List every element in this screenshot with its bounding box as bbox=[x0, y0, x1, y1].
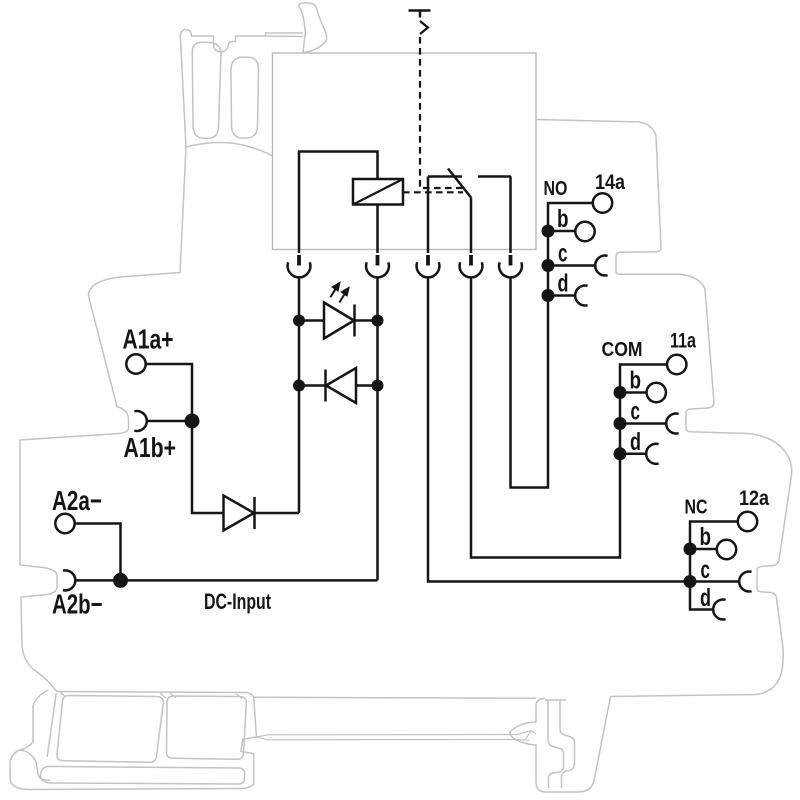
wire DC input return bbox=[121, 579, 378, 582]
label NO b bbox=[557, 205, 569, 233]
socket COM d bbox=[646, 444, 658, 464]
COM bus bbox=[471, 277, 667, 558]
junction COM b bbox=[614, 386, 627, 399]
manual actuator stem bbox=[419, 11, 422, 18]
svg-text:12a: 12a bbox=[739, 486, 770, 510]
plug pin 2 bbox=[376, 255, 380, 266]
wire COM b bbox=[620, 391, 647, 394]
plug pin 4 bbox=[469, 255, 473, 266]
socket cup 3 bbox=[417, 262, 440, 277]
label NC b bbox=[700, 523, 712, 551]
label COM c bbox=[631, 398, 641, 426]
junction A1 bbox=[185, 414, 200, 429]
LED V1 emission arrows bbox=[330, 283, 348, 302]
junction COM d bbox=[614, 447, 627, 460]
housing clamp slot right bbox=[231, 57, 259, 138]
socket cup 1 bbox=[288, 262, 311, 277]
junction NO d bbox=[542, 289, 555, 302]
svg-text:COM: COM bbox=[602, 339, 643, 361]
svg-text:b: b bbox=[700, 523, 712, 551]
housing foot bottom slot bbox=[40, 766, 244, 784]
LED V1 wires bbox=[299, 319, 378, 322]
svg-text:b: b bbox=[557, 205, 569, 233]
junction NO c bbox=[542, 259, 555, 272]
terminal circle A2a bbox=[55, 514, 74, 533]
wire NC pole from contact bbox=[428, 277, 690, 582]
wire right rail upper bbox=[376, 277, 379, 580]
housing relay compartment box bbox=[273, 53, 537, 250]
svg-text:14a: 14a bbox=[595, 170, 626, 194]
wire coil bottom to pin2 bbox=[376, 205, 379, 254]
label NO bbox=[544, 178, 568, 200]
manual actuator spring chevron bbox=[420, 21, 428, 34]
relay coil K1 bbox=[353, 179, 403, 205]
wire coil top to A1 feed bbox=[299, 152, 378, 254]
socket A1b bbox=[134, 411, 146, 431]
wire diode V3 to left rail bbox=[255, 512, 300, 515]
junction LED left bbox=[293, 315, 305, 327]
label 11a bbox=[670, 329, 697, 353]
label NO d bbox=[558, 270, 569, 298]
LED V1 triangle bbox=[324, 303, 354, 339]
label COM d bbox=[630, 428, 641, 456]
wire A2a to junction bbox=[75, 524, 121, 580]
socket cup 4 bbox=[460, 262, 483, 277]
terminal circle COM b bbox=[647, 383, 666, 402]
label A2a− bbox=[52, 485, 102, 516]
svg-text:b: b bbox=[630, 367, 642, 395]
socket A2b bbox=[63, 570, 75, 590]
manual actuator button bar bbox=[409, 9, 431, 12]
housing foot top edge bbox=[58, 692, 257, 789]
socket NC d bbox=[713, 600, 725, 620]
coil dashed link horizontal bbox=[403, 191, 463, 193]
wire COM d bbox=[620, 453, 646, 456]
junction NC b bbox=[684, 543, 697, 556]
housing rail clip outline bbox=[510, 697, 611, 793]
housing clamp bottom arc bbox=[186, 143, 273, 157]
wire NO c bbox=[548, 264, 595, 267]
junction NO b bbox=[542, 225, 555, 238]
terminal circle 14a bbox=[593, 193, 612, 212]
svg-text:d: d bbox=[700, 584, 711, 612]
housing left side outline bbox=[20, 147, 186, 692]
NO bus bbox=[511, 203, 594, 488]
junction A2 bbox=[113, 573, 128, 588]
housing body bottom edge middle bbox=[254, 696, 536, 699]
socket cup 5 bbox=[499, 262, 522, 277]
wire NO d bbox=[548, 294, 575, 297]
terminal circle NO b bbox=[575, 222, 594, 241]
label DC-Input bbox=[204, 589, 271, 614]
label A2b− bbox=[52, 589, 103, 620]
svg-text:c: c bbox=[701, 556, 711, 584]
LED V1 cathode bar bbox=[353, 305, 356, 337]
junction COM c bbox=[614, 417, 627, 430]
wire NO b bbox=[548, 230, 576, 233]
NC bus bbox=[690, 522, 738, 610]
junction NC c bbox=[684, 575, 697, 588]
din rail right lip wedge bbox=[514, 731, 536, 741]
diode V3 cathode bar bbox=[253, 497, 256, 529]
plug pin 5 bbox=[509, 255, 513, 266]
socket cup 2 bbox=[366, 262, 389, 277]
housing foot slot hatch ticks bbox=[60, 692, 242, 699]
label NC bbox=[685, 497, 708, 519]
relay contact blade bbox=[448, 169, 471, 198]
diode V2 wires bbox=[299, 384, 378, 387]
svg-text:NC: NC bbox=[685, 497, 708, 519]
diode V3 triangle bbox=[224, 496, 255, 531]
socket COM c bbox=[666, 414, 678, 434]
label COM bbox=[602, 339, 643, 361]
relay contact top bar bbox=[428, 175, 462, 178]
wire NC b bbox=[690, 548, 717, 551]
housing clamp slot left bbox=[192, 42, 221, 138]
wire blade to pin4 bbox=[470, 198, 473, 254]
label A1a+ bbox=[123, 324, 174, 355]
socket NC c bbox=[739, 572, 751, 592]
label NC c bbox=[701, 556, 711, 584]
svg-text:c: c bbox=[558, 240, 568, 268]
svg-text:A1b+: A1b+ bbox=[124, 432, 177, 463]
svg-text:A2a−: A2a− bbox=[52, 485, 102, 516]
svg-text:c: c bbox=[631, 398, 641, 426]
wire A1 bus down bbox=[192, 421, 224, 513]
label NC d bbox=[700, 584, 711, 612]
junction diode left bbox=[293, 380, 305, 392]
wire COM c bbox=[620, 422, 666, 425]
terminal circle A1a bbox=[126, 354, 145, 373]
wire A2b to junction bbox=[76, 579, 121, 582]
housing foot slot left bbox=[57, 696, 163, 763]
svg-text:A1a+: A1a+ bbox=[123, 324, 174, 355]
housing foot slot right bbox=[166, 696, 246, 759]
label 14a bbox=[595, 170, 626, 194]
housing clamp hook horn bbox=[299, 3, 327, 53]
wire A1b to junction bbox=[147, 420, 192, 423]
housing foot outer outline bbox=[10, 690, 240, 790]
relay contact fixed pole bbox=[427, 177, 430, 254]
socket NO c bbox=[595, 256, 607, 276]
junction LED right bbox=[372, 315, 384, 327]
svg-text:NO: NO bbox=[544, 178, 568, 200]
label 12a bbox=[739, 486, 770, 510]
terminal circle NC b bbox=[717, 540, 736, 559]
terminal circle 11a bbox=[667, 355, 686, 374]
plug pin 3 bbox=[426, 255, 430, 266]
label COM b bbox=[630, 367, 642, 395]
diode V2 triangle bbox=[326, 368, 356, 403]
din rail left section bbox=[257, 735, 518, 740]
svg-text:11a: 11a bbox=[670, 329, 697, 353]
housing foot inner wall bbox=[47, 694, 56, 757]
wire A1a to bus bbox=[146, 364, 192, 420]
svg-text:d: d bbox=[630, 428, 641, 456]
svg-text:A2b−: A2b− bbox=[52, 589, 103, 620]
svg-text:DC-Input: DC-Input bbox=[204, 589, 271, 614]
diode V2 cathode bar bbox=[324, 370, 327, 402]
housing rail clip spring detail bbox=[545, 700, 575, 788]
socket NO d bbox=[575, 286, 587, 306]
wire left rail upper bbox=[298, 277, 301, 513]
wire NO contact to pin5 bbox=[509, 177, 512, 254]
label A1b+ bbox=[124, 432, 177, 463]
housing right side outline bbox=[536, 120, 792, 697]
terminal circle 12a bbox=[738, 512, 757, 531]
label NO c bbox=[558, 240, 568, 268]
relay contact NO bar bbox=[478, 175, 511, 178]
housing release clamp outline bbox=[180, 30, 303, 148]
plug pin 1 bbox=[297, 255, 301, 266]
actuator dashed link vertical bbox=[420, 37, 463, 188]
wire NC c bbox=[690, 580, 739, 583]
junction diode right bbox=[372, 380, 384, 392]
svg-text:d: d bbox=[558, 270, 569, 298]
